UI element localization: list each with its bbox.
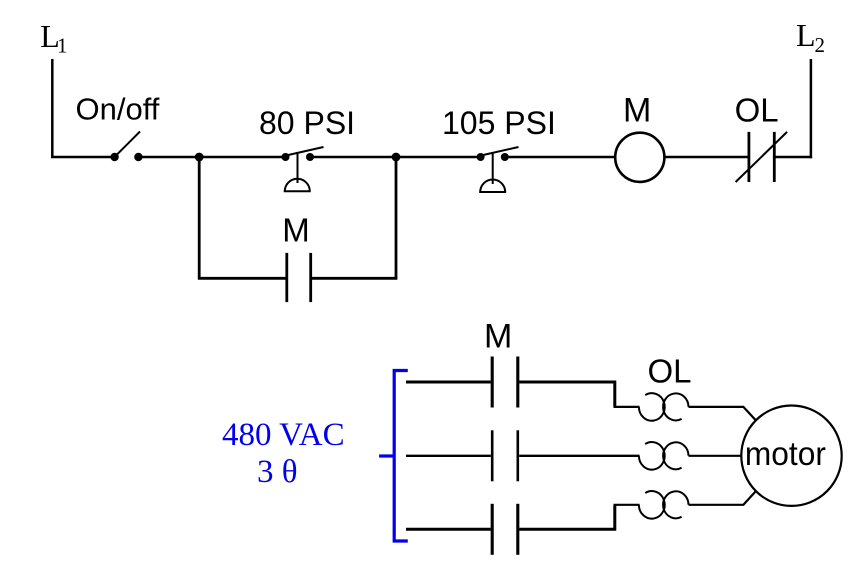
- contactor M contact phase 1: [492, 357, 518, 408]
- pressure switch 80 PSI contacts: [282, 147, 324, 191]
- wire phase 1 left: [406, 381, 491, 384]
- svg-text:M: M: [282, 212, 310, 249]
- wire phase 3 to heater: [614, 504, 640, 506]
- coil M circle: [615, 133, 664, 182]
- wire rung segment to node B: [310, 156, 481, 159]
- node L2 label: [796, 17, 825, 57]
- supply bracket (blue): [379, 371, 408, 542]
- wire phase 1 right with step: [519, 382, 615, 407]
- overload heater phase 1: [639, 393, 689, 421]
- wire rung segment OL to L2 rail: [774, 156, 812, 159]
- wire rung segment to node A: [138, 156, 285, 159]
- svg-text:1: 1: [57, 33, 68, 57]
- wire phase 3 heater to motor: [689, 491, 757, 505]
- node A junction dot: [195, 153, 204, 162]
- svg-text:On/off: On/off: [76, 92, 160, 127]
- pressure switch 105 PSI contacts: [477, 147, 519, 192]
- switch S1 On/off contacts: [110, 132, 142, 162]
- overload contact OL (NC): [736, 132, 788, 182]
- wire L1 rail: [52, 59, 111, 157]
- node L1 label: [40, 18, 67, 57]
- overload heater phase 2: [639, 442, 689, 470]
- contactor M contact phase 2: [492, 430, 518, 481]
- svg-text:M: M: [484, 318, 512, 356]
- wire phase 3 left: [406, 528, 491, 531]
- wire phase 2 to heater: [519, 455, 639, 457]
- svg-text:L: L: [796, 17, 816, 53]
- wire rung segment to coil M: [505, 156, 615, 159]
- contact M (seal-in) NO contact: [287, 253, 311, 302]
- wire branch right vertical: [395, 157, 398, 280]
- svg-text:motor: motor: [745, 435, 826, 472]
- svg-text:480 VAC: 480 VAC: [222, 417, 345, 453]
- svg-text:OL: OL: [648, 353, 692, 390]
- wire L2 rail: [810, 59, 813, 158]
- motor M1 circle: [741, 406, 841, 506]
- overload heater phase 3: [639, 491, 689, 519]
- wire phase 1 heater to motor: [689, 407, 757, 421]
- wire branch bottom right: [311, 277, 398, 280]
- svg-text:3 θ: 3 θ: [257, 454, 298, 490]
- wire phase 2 heater to motor: [689, 455, 743, 457]
- svg-text:105 PSI: 105 PSI: [442, 105, 556, 141]
- svg-text:OL: OL: [735, 92, 779, 129]
- wire branch bottom left: [198, 277, 287, 280]
- svg-text:M: M: [623, 91, 651, 129]
- svg-text:80 PSI: 80 PSI: [259, 105, 355, 141]
- wire phase 3 right with step: [519, 505, 615, 529]
- contactor M contact phase 3: [492, 504, 518, 555]
- wire branch left vertical: [198, 157, 201, 280]
- wire rung segment coil to OL: [664, 156, 749, 159]
- wire phase 1 to heater: [614, 406, 640, 408]
- wire phase 2 left: [406, 455, 491, 457]
- node B junction dot: [392, 153, 401, 162]
- svg-text:2: 2: [815, 33, 826, 57]
